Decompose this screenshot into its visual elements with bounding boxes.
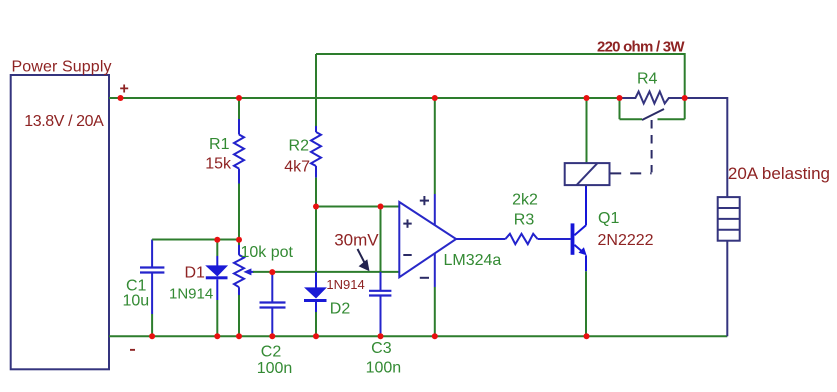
node - terminal label	[130, 349, 135, 351]
power supply PS1	[11, 59, 112, 370]
wire wiper to inverting input	[253, 271, 399, 273]
junction dots mid	[214, 204, 383, 276]
svg-text:10u: 10u	[123, 293, 150, 310]
svg-text:20A belasting: 20A belasting	[728, 164, 830, 183]
svg-text:100n: 100n	[366, 359, 402, 376]
relay linkage dashed	[610, 120, 651, 173]
svg-text:1N914: 1N914	[326, 277, 364, 292]
label 220 ohm / 3W	[597, 39, 685, 56]
wire 220ohm bypass top loop	[316, 53, 685, 126]
svg-text:Q1: Q1	[598, 210, 619, 227]
wire op-amp output	[456, 238, 505, 240]
capacitor C2	[257, 272, 293, 377]
svg-text:R3: R3	[514, 212, 535, 229]
resistor R3	[505, 192, 570, 245]
label 30mV	[334, 231, 379, 250]
svg-text:R2: R2	[289, 138, 310, 155]
svg-text:C2: C2	[261, 343, 282, 360]
diode D2	[304, 207, 365, 337]
svg-text:1N914: 1N914	[169, 285, 213, 302]
wire top rail R4 right segment to load corner (navy)	[685, 97, 728, 197]
wire C1/D1/R1 mid link	[152, 239, 239, 241]
wire non-inverting input	[316, 206, 399, 208]
wire 0V bottom rail	[109, 241, 727, 337]
svg-text:LM324a: LM324a	[444, 252, 502, 269]
resistor R2	[284, 126, 321, 207]
svg-text:13.8V / 20A: 13.8V / 20A	[24, 113, 104, 130]
transistor Q1 2N2222	[571, 185, 654, 336]
diode D1	[169, 240, 228, 337]
svg-text:220 ohm / 3W: 220 ohm / 3W	[597, 39, 685, 56]
potentiometer 10k pot	[234, 240, 294, 337]
wire op-amp V- pin to bottom rail	[434, 254, 436, 337]
junction dots top rail	[118, 95, 688, 101]
relay K1 coil	[565, 98, 610, 185]
svg-text:2k2: 2k2	[512, 192, 538, 209]
svg-text:2N2222: 2N2222	[598, 232, 654, 249]
wire +13.8V top rail	[109, 97, 620, 99]
resistor R1	[205, 98, 244, 240]
op-amp U1 LM324a	[399, 196, 501, 278]
wire supply vertical mid to op-amp V+ pin	[434, 98, 436, 225]
capacitor C1	[123, 240, 165, 337]
svg-text:C3: C3	[371, 340, 392, 357]
svg-text:100n: 100n	[257, 360, 293, 377]
resistor R4	[620, 71, 685, 104]
junction dots bottom rail	[149, 333, 589, 339]
pot wiper arrow	[243, 268, 254, 275]
svg-text:Power Supply: Power Supply	[12, 59, 112, 76]
svg-text:R1: R1	[209, 136, 230, 153]
relay switch contact	[620, 98, 685, 120]
load RL 20A belasting	[718, 164, 830, 241]
svg-text:R4: R4	[637, 71, 658, 88]
svg-text:4k7: 4k7	[284, 158, 310, 175]
svg-text:D1: D1	[185, 265, 206, 282]
30mV pointer arrow	[358, 249, 370, 271]
svg-text:15k: 15k	[205, 156, 232, 173]
svg-text:30mV: 30mV	[334, 231, 379, 250]
capacitor C3	[366, 207, 402, 377]
svg-text:D2: D2	[330, 301, 351, 318]
svg-text:10k pot: 10k pot	[241, 244, 294, 261]
node + terminal label	[120, 81, 129, 98]
